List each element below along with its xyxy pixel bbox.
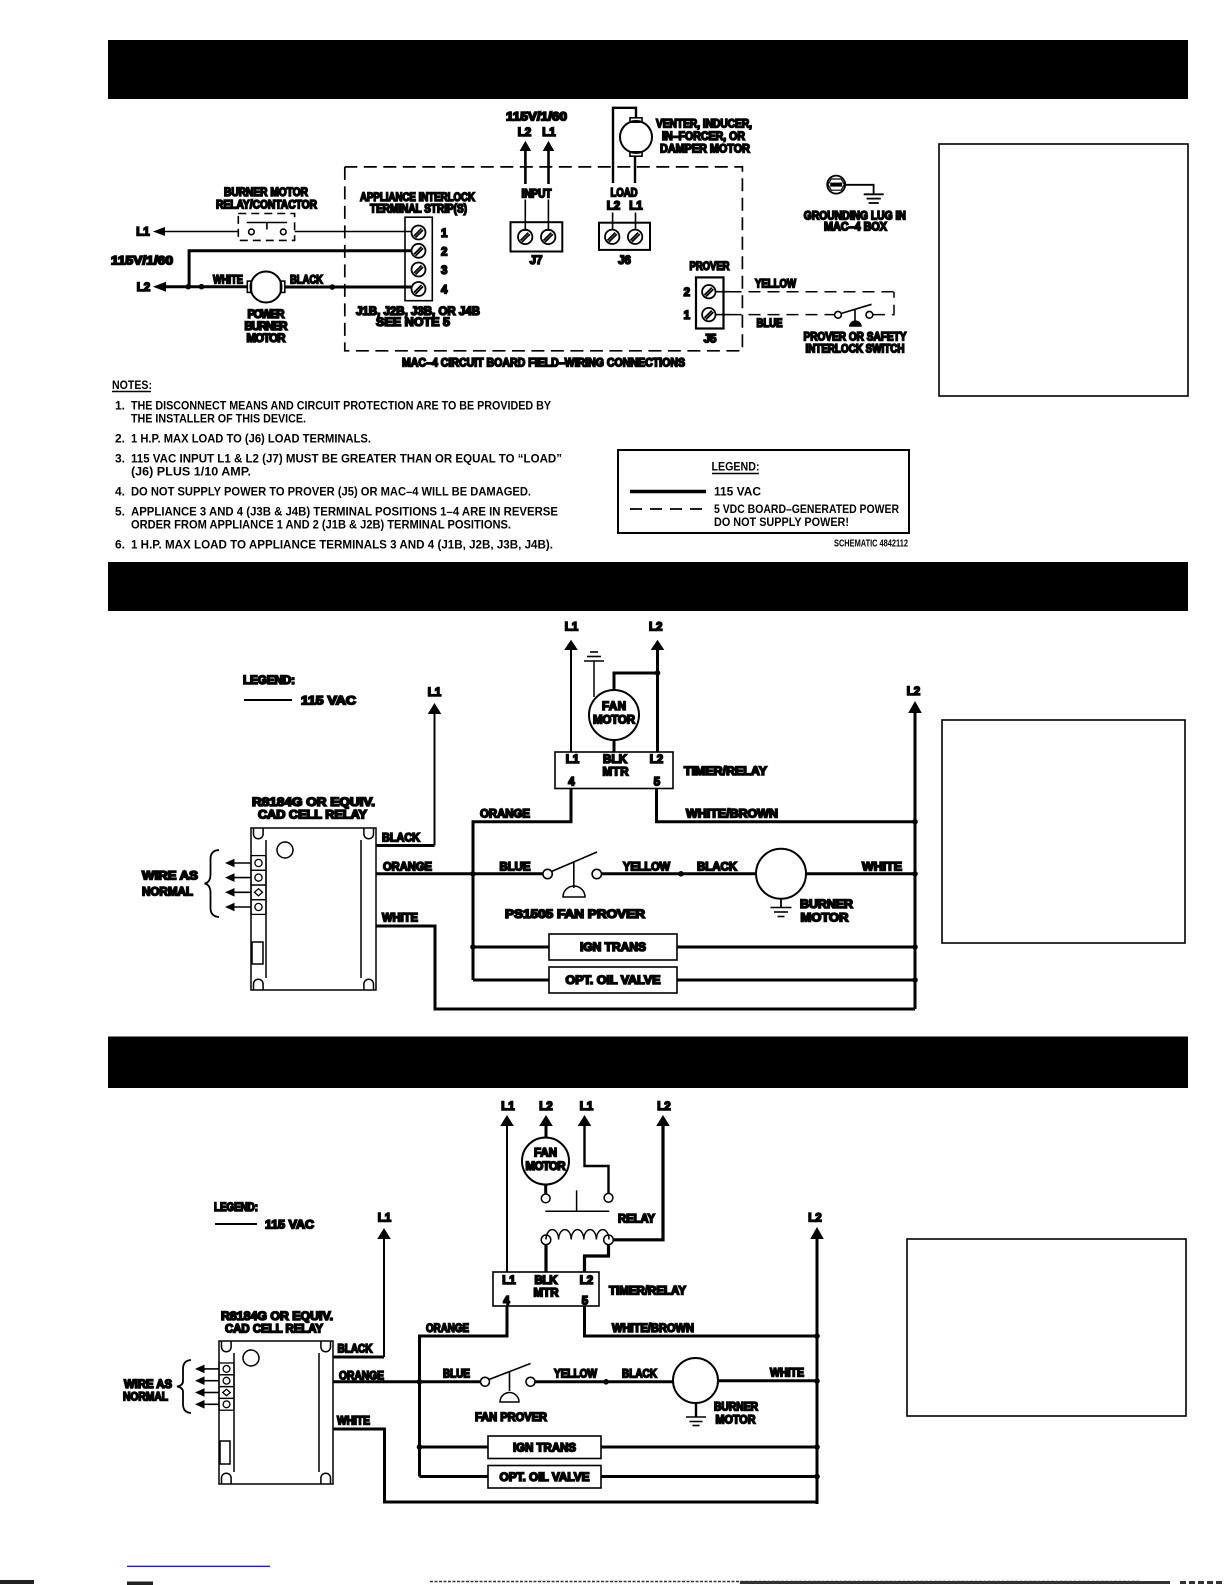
D3 timer/relay box — [493, 1272, 599, 1306]
svg-text:IGN TRANS: IGN TRANS — [580, 942, 646, 954]
D2 label BLACK (burner) — [697, 862, 738, 874]
svg-text:L2: L2 — [580, 1275, 593, 1287]
svg-text:2: 2 — [441, 246, 447, 258]
svg-text:115 VAC: 115 VAC — [714, 485, 761, 499]
grounding lug wire — [845, 185, 873, 195]
svg-text:L1: L1 — [542, 127, 556, 139]
svg-text:5: 5 — [582, 1296, 589, 1308]
D3 label WHITE/BROWN — [612, 1323, 694, 1335]
svg-text:BLUE: BLUE — [500, 862, 531, 874]
D3 junction dots on L2 bus — [814, 1333, 820, 1479]
D3 IGN TRANS box + wires — [420, 1436, 818, 1459]
J7 screw L2 — [518, 230, 532, 244]
terminal pin numbers 1-4 — [441, 228, 448, 297]
svg-text:MOTOR: MOTOR — [716, 1415, 757, 1427]
svg-text:6.: 6. — [115, 538, 125, 552]
svg-text:115 VAC: 115 VAC — [301, 696, 356, 708]
D3 fan motor label — [526, 1148, 567, 1174]
D3 L2 coil arrow and wire (thick) — [613, 1115, 670, 1240]
svg-text:ORANGE: ORANGE — [383, 862, 432, 874]
D2 IGN TRANS box + wires — [473, 934, 915, 960]
svg-text:L1: L1 — [566, 754, 580, 766]
svg-text:YELLOW: YELLOW — [554, 1369, 597, 1381]
svg-text:DO NOT SUPPLY POWER!: DO NOT SUPPLY POWER! — [714, 515, 849, 529]
D3 label ORANGE + wire (thick) — [333, 1371, 481, 1383]
wire relay to terminal 1 — [295, 231, 412, 233]
svg-text:1: 1 — [684, 310, 691, 322]
bottom page artifacts: cut-off rule right — [430, 1582, 1225, 1583]
svg-text:TERMINAL STRIP(S): TERMINAL STRIP(S) — [370, 204, 467, 216]
D2 label BLUE — [500, 862, 531, 874]
terminal screw 3 — [412, 263, 426, 277]
MAC-4 board dashed outline — [345, 167, 743, 351]
wire L1 arrow — [153, 227, 238, 236]
prover wire 2 (yellow, dashed) — [716, 291, 895, 293]
svg-text:5 VDC BOARD–GENERATED POWER: 5 VDC BOARD–GENERATED POWER — [714, 502, 899, 516]
legend box — [618, 450, 909, 533]
svg-text:TIMER/RELAY: TIMER/RELAY — [684, 766, 767, 778]
svg-text:SEE NOTE 5: SEE NOTE 5 — [376, 317, 451, 329]
svg-text:J5: J5 — [704, 333, 717, 345]
D2 node L1 (left riser) — [565, 622, 579, 634]
junction dot on L2 (2nd) — [199, 284, 205, 290]
svg-text:R8184G OR EQUIV.: R8184G OR EQUIV. — [221, 1311, 333, 1323]
svg-text:THE INSTALLER OF THIS DEVICE.: THE INSTALLER OF THIS DEVICE. — [131, 412, 306, 426]
D2 node L2 (right of fan motor) — [649, 622, 662, 634]
D2 label BURNER MOTOR — [800, 899, 854, 925]
svg-text:IGN TRANS: IGN TRANS — [513, 1443, 576, 1455]
D3 node L2 (right bus) — [808, 1213, 821, 1225]
D2 node L1 (relay riser) — [428, 687, 442, 699]
labels L2 L1 (load) — [607, 201, 644, 213]
svg-text:POWER: POWER — [248, 309, 286, 321]
svg-text:APPLIANCE 3 AND 4 (J3B & J4B): APPLIANCE 3 AND 4 (J3B & J4B) TERMINAL P… — [131, 505, 558, 519]
motor terminal tabs — [247, 281, 284, 292]
D3 junction dot yellow/black — [603, 1379, 609, 1385]
D2 label YELLOW + wire (thick) — [602, 862, 757, 874]
svg-text:3: 3 — [441, 265, 447, 277]
D2 brace — [205, 850, 220, 917]
D2 junction dot at L2/fan motor — [655, 670, 661, 676]
legend heading — [712, 460, 760, 474]
svg-text:115 VAC INPUT L1 & L2 (J7) MUS: 115 VAC INPUT L1 & L2 (J7) MUST BE GREAT… — [131, 452, 562, 466]
D3 brace — [177, 1360, 191, 1413]
terminal screw 1 — [412, 226, 426, 240]
svg-text:4: 4 — [568, 777, 575, 789]
D3 fan motor circle — [522, 1138, 569, 1185]
relay contact symbol inside — [247, 223, 287, 235]
label PROVER — [690, 261, 731, 273]
svg-text:LOAD: LOAD — [611, 187, 638, 199]
svg-text:CAD CELL RELAY: CAD CELL RELAY — [225, 1324, 323, 1336]
power burner motor circle — [251, 272, 282, 303]
empty image frame box 2 — [942, 720, 1185, 943]
D2 label WHITE + wire to bottom bus (thick) — [376, 913, 915, 1010]
D3 label BURNER MOTOR — [714, 1402, 759, 1427]
label INPUT — [522, 189, 552, 201]
connector J5 box — [696, 277, 724, 328]
D3 label TIMER/RELAY — [609, 1286, 686, 1298]
svg-text:3.: 3. — [115, 452, 125, 466]
input L1 arrow (up, thick) — [543, 141, 555, 231]
D3 label BLUE — [443, 1369, 470, 1381]
svg-text:ORANGE: ORANGE — [480, 809, 530, 821]
svg-text:4: 4 — [441, 285, 448, 297]
D3 junction dot orange bus — [417, 1379, 423, 1385]
svg-text:L2: L2 — [907, 686, 920, 698]
label WHITE — [213, 275, 243, 287]
legend 115 VAC sample line — [630, 485, 761, 499]
wire motor to terminal 4 (thick) — [285, 286, 412, 289]
D3 label RELAY — [618, 1214, 655, 1226]
svg-text:4.: 4. — [115, 485, 125, 499]
label 115V/1/60 — [111, 256, 173, 268]
svg-text:MAC–4 BOX: MAC–4 BOX — [824, 222, 887, 234]
svg-text:J7: J7 — [530, 255, 543, 267]
svg-text:IN–FORCER, OR: IN–FORCER, OR — [662, 131, 746, 143]
svg-text:L2: L2 — [657, 1101, 670, 1113]
svg-text:MTR: MTR — [534, 1288, 560, 1300]
svg-text:BURNER MOTOR: BURNER MOTOR — [224, 187, 309, 199]
D2 burner motor circle — [756, 849, 806, 899]
svg-text:BLUE: BLUE — [757, 318, 783, 330]
D2 label WIRE AS NORMAL — [142, 871, 198, 899]
svg-text:WHITE: WHITE — [213, 275, 243, 287]
D2 relay terminal strip — [251, 856, 266, 915]
D3 junction dot ign trans left — [417, 1444, 423, 1450]
note 4 — [115, 485, 531, 499]
empty image frame box 3 — [907, 1239, 1186, 1416]
svg-text:BLK: BLK — [535, 1275, 559, 1287]
venter motor loop wire (thick) — [613, 108, 636, 183]
D2 ground symbol above fan motor — [584, 652, 604, 697]
svg-text:WHITE/BROWN: WHITE/BROWN — [612, 1323, 694, 1335]
D3 coil right wire to timer L2 (thick) — [585, 1245, 609, 1272]
D2 legend heading — [243, 675, 295, 687]
D3 L1 timer arrow and riser — [500, 1115, 514, 1272]
svg-text:L1: L1 — [501, 1101, 515, 1113]
svg-text:4: 4 — [503, 1296, 510, 1308]
legend 5 VDC dashed sample line — [630, 502, 899, 529]
label BURNER MOTOR — [216, 187, 318, 212]
svg-text:L2: L2 — [649, 622, 662, 634]
D2 fan motor label — [593, 701, 636, 727]
J5 screw 1 — [702, 308, 715, 321]
D3 relay contact circle left — [541, 1194, 550, 1203]
svg-text:1: 1 — [441, 228, 448, 240]
svg-text:L2: L2 — [137, 282, 150, 294]
note 3 — [115, 452, 562, 479]
svg-text:MOTOR: MOTOR — [593, 715, 636, 727]
grounding lug symbol — [827, 176, 845, 194]
svg-text:APPLIANCE INTERLOCK: APPLIANCE INTERLOCK — [360, 192, 476, 204]
D2 label BLACK + wire to L1 riser (thick) — [376, 833, 435, 846]
venter motor tabs — [630, 118, 642, 156]
D3 wire-as-normal arrows — [195, 1365, 219, 1409]
svg-text:FAN PROVER: FAN PROVER — [475, 1412, 548, 1424]
svg-text:INPUT: INPUT — [522, 189, 552, 201]
svg-text:OPT. OIL VALVE: OPT. OIL VALVE — [566, 975, 661, 987]
svg-text:L1: L1 — [629, 201, 643, 213]
bottom page artifacts: cut-off text left — [0, 1580, 153, 1585]
svg-text:BLACK: BLACK — [338, 1344, 374, 1356]
svg-text:2: 2 — [684, 287, 690, 299]
svg-text:WHITE/BROWN: WHITE/BROWN — [686, 809, 778, 821]
svg-text:1.: 1. — [115, 399, 125, 413]
svg-text:R8184G OR EQUIV.: R8184G OR EQUIV. — [252, 797, 375, 809]
D2 label ORANGE + wire (thick) — [376, 862, 543, 874]
svg-text:PROVER OR SAFETY: PROVER OR SAFETY — [804, 332, 907, 344]
empty image frame box 1 — [939, 144, 1188, 396]
svg-text:L1: L1 — [565, 622, 579, 634]
D2 fan motor to timer wire (thick) — [613, 740, 616, 752]
D3 label BLACK + wire to L1 riser (thick) — [333, 1344, 384, 1358]
J7 screw L1 — [541, 230, 555, 244]
svg-text:YELLOW: YELLOW — [623, 862, 670, 874]
D2 OPT. OIL VALVE box + wires — [473, 967, 915, 993]
D3 label BLACK (burner) — [622, 1369, 658, 1381]
label SCHEMATIC 4842112 — [834, 539, 908, 550]
svg-text:NORMAL: NORMAL — [142, 887, 193, 899]
D3 OPT. OIL VALVE box + wires — [420, 1466, 818, 1489]
terminal screw 2 — [412, 244, 426, 258]
D2 burner motor ground — [771, 899, 792, 917]
D3 L2 bus arrow and vertical wire (thick) — [810, 1227, 824, 1504]
D3 label WHITE + wire to bottom bus (thick) — [333, 1416, 817, 1503]
svg-text:WIRE AS: WIRE AS — [142, 871, 198, 883]
note 6 — [115, 538, 553, 552]
D3 L2 fan arrow and riser (thick) — [539, 1115, 553, 1138]
title banner 2 (redacted black bar) — [108, 562, 1188, 611]
svg-text:WHITE: WHITE — [770, 1368, 804, 1380]
D2 junction dot orange bus — [470, 871, 476, 877]
D3 L1 arrow and riser wire — [377, 1228, 391, 1357]
svg-text:BLACK: BLACK — [622, 1369, 658, 1381]
prover or safety interlock switch symbol — [835, 304, 873, 327]
load L2 wire stems — [613, 213, 636, 231]
J5 pin labels 2 and 1 — [684, 287, 691, 322]
junction dot right of motor — [330, 284, 336, 290]
svg-text:WHITE: WHITE — [337, 1416, 370, 1428]
svg-text:L1: L1 — [136, 227, 150, 239]
label LOAD — [611, 187, 638, 199]
D3 label YELLOW + wire (thick) — [535, 1369, 673, 1382]
label BLUE — [757, 318, 783, 330]
D2 fan motor circle — [589, 690, 639, 740]
svg-text:5.: 5. — [115, 505, 125, 519]
D3 cad cell relay body — [219, 1341, 333, 1484]
D3 node L2 (coil riser, top) — [657, 1101, 670, 1113]
D2 label R8184G OR EQUIV. CAD CELL RELAY — [252, 797, 375, 822]
D2 label ORANGE (top) — [480, 809, 530, 821]
svg-text:PROVER: PROVER — [690, 261, 731, 273]
D3 burner motor ground — [686, 1403, 706, 1426]
svg-text:115V/1/60: 115V/1/60 — [506, 112, 567, 124]
note 2 — [115, 432, 371, 446]
D3 relay contact actuator bars — [545, 1190, 609, 1211]
title banner 1 (redacted black bar) — [108, 40, 1188, 99]
D2 junction dot yellow/black — [678, 871, 684, 877]
label 115V/1/60 (input feed) — [506, 112, 567, 124]
venter motor circle — [620, 121, 652, 153]
svg-text:OPT. OIL VALVE: OPT. OIL VALVE — [500, 1472, 590, 1484]
labels L2 L1 (input) — [518, 127, 557, 139]
svg-text:L2: L2 — [650, 754, 663, 766]
label J1B, J2B, J3B, OR J4B / SEE NOTE 5 — [356, 306, 480, 329]
svg-text:MOTOR: MOTOR — [526, 1161, 567, 1173]
svg-text:BLACK: BLACK — [290, 275, 324, 287]
svg-text:MTR: MTR — [603, 767, 630, 779]
svg-text:CAD CELL RELAY: CAD CELL RELAY — [258, 810, 367, 822]
svg-text:INTERLOCK SWITCH: INTERLOCK SWITCH — [806, 344, 905, 356]
svg-text:SCHEMATIC 4842112: SCHEMATIC 4842112 — [834, 539, 908, 550]
svg-text:BLACK: BLACK — [697, 862, 738, 874]
D3 relay terminal strip — [219, 1363, 234, 1410]
label GROUNDING LUG IN MAC-4 BOX — [804, 211, 906, 234]
D3 label WIRE AS NORMAL — [123, 1379, 172, 1404]
svg-text:WHITE: WHITE — [862, 862, 902, 874]
D2 wire-as-normal arrows — [225, 859, 251, 912]
J5 screw 2 — [702, 285, 715, 298]
node L2 label (left feed) — [137, 282, 150, 294]
svg-text:PS1505 FAN PROVER: PS1505 FAN PROVER — [505, 909, 646, 921]
D3 fan motor to contact wire (thick) — [544, 1185, 547, 1195]
D2 wire timer 4 to orange bus (thick) — [473, 789, 571, 981]
svg-text:BLK: BLK — [603, 754, 628, 766]
svg-text:LEGEND:: LEGEND: — [243, 675, 295, 687]
D3 legend sample line + 115 VAC — [215, 1220, 314, 1232]
label PROVER OR SAFETY INTERLOCK SWITCH — [804, 332, 907, 356]
label J5 — [704, 333, 717, 345]
D2 timer terminal labels — [566, 754, 663, 789]
svg-text:YELLOW: YELLOW — [755, 279, 796, 291]
D2 relay cad cell hole — [277, 842, 293, 858]
D3 L1 contact arrow and wire — [578, 1115, 609, 1193]
dashed wire right bracket — [873, 292, 894, 315]
svg-text:LEGEND:: LEGEND: — [214, 1202, 258, 1214]
input L2 arrow (up, thick) — [520, 141, 532, 231]
svg-text:1 H.P. MAX LOAD TO (J6) LOAD T: 1 H.P. MAX LOAD TO (J6) LOAD TERMINALS. — [131, 432, 371, 446]
svg-text:NOTES:: NOTES: — [112, 378, 152, 392]
D3 node L2 (fan motor, top) — [539, 1101, 552, 1113]
svg-text:BURNER: BURNER — [714, 1402, 759, 1414]
note 1 — [115, 399, 551, 426]
node L1 label (left feed) — [136, 227, 150, 239]
D2 label TIMER/RELAY — [684, 766, 767, 778]
J6 screw L2 — [605, 230, 619, 244]
D2 fan motor wire to L2 riser (thick) — [614, 673, 658, 691]
D2 legend sample line + 115 VAC — [244, 696, 356, 708]
svg-text:5: 5 — [654, 777, 661, 789]
svg-text:L1: L1 — [378, 1213, 392, 1225]
D2 fan prover switch — [543, 852, 602, 897]
svg-text:ORANGE: ORANGE — [426, 1323, 469, 1335]
label POWER BURNER MOTOR — [245, 309, 289, 345]
terminal screw 4 — [412, 282, 426, 296]
svg-text:DAMPER MOTOR: DAMPER MOTOR — [660, 144, 751, 156]
svg-text:L2: L2 — [808, 1213, 821, 1225]
D3 wire timer 4 to orange bus (thick) — [420, 1306, 508, 1477]
D2 label WHITE/BROWN — [686, 809, 778, 821]
D3 node L1 (timer riser, top) — [501, 1101, 515, 1113]
D2 L2 bus arrow and vertical wire (thick) — [908, 701, 922, 1009]
appliance interlock terminal strip box — [405, 217, 432, 301]
label MAC-4 CIRCUIT BOARD FIELD-WIRING CONNECTIONS — [402, 358, 685, 370]
label YELLOW — [755, 279, 796, 291]
svg-text:WIRE AS: WIRE AS — [124, 1379, 172, 1391]
D3 label R8184G OR EQUIV. CAD CELL RELAY — [221, 1311, 333, 1336]
svg-text:L1: L1 — [428, 687, 442, 699]
svg-text:1 H.P. MAX LOAD TO APPLIANCE T: 1 H.P. MAX LOAD TO APPLIANCE TERMINALS 3… — [131, 538, 553, 552]
D3 node L1 (relay riser) — [378, 1213, 392, 1225]
svg-text:NORMAL: NORMAL — [123, 1392, 168, 1404]
label J6 — [618, 255, 631, 267]
svg-text:BURNER: BURNER — [800, 899, 854, 911]
D3 node L1 (contact riser, top) — [580, 1101, 594, 1113]
D3 fan prover switch — [481, 1364, 536, 1403]
relay/contactor box (dashed) — [238, 214, 294, 241]
D3 label WHITE (right) + wire (thick) — [718, 1368, 817, 1381]
svg-text:L1: L1 — [580, 1101, 594, 1113]
D2 label PS1505 FAN PROVER — [505, 909, 646, 921]
svg-text:VENTER, INDUCER,: VENTER, INDUCER, — [656, 119, 752, 131]
D3 wire timer 5 to L2 bus (thick) — [585, 1306, 818, 1336]
svg-text:MAC–4 CIRCUIT BOARD FIELD–WIRI: MAC–4 CIRCUIT BOARD FIELD–WIRING CONNECT… — [402, 358, 685, 370]
D2 label WHITE (right) + wire (thick) — [806, 862, 915, 874]
connector J7 box — [511, 222, 563, 251]
svg-text:RELAY: RELAY — [618, 1214, 655, 1226]
D3 label FAN PROVER — [475, 1412, 548, 1424]
D3 relay coil — [541, 1230, 613, 1245]
svg-text:J6: J6 — [618, 255, 631, 267]
svg-text:115 VAC: 115 VAC — [265, 1220, 314, 1232]
D2 junction dot ign trans left — [470, 944, 476, 950]
svg-text:BLACK: BLACK — [382, 833, 421, 845]
svg-text:THE DISCONNECT MEANS AND CIRCU: THE DISCONNECT MEANS AND CIRCUIT PROTECT… — [131, 399, 551, 413]
label J7 — [530, 255, 543, 267]
D2 L2 arrow and riser wire (thick) — [651, 640, 665, 752]
wire L2 to terminal 2 (up and right, thick) — [189, 251, 411, 287]
svg-text:ORDER FROM APPLIANCE 1 AND 2 (: ORDER FROM APPLIANCE 1 AND 2 (J1B & J2B)… — [131, 518, 511, 532]
svg-text:115V/1/60: 115V/1/60 — [111, 256, 173, 268]
D3 burner motor circle — [673, 1358, 718, 1403]
connector J6 box — [599, 223, 650, 250]
svg-text:L2: L2 — [518, 127, 531, 139]
D3 label ORANGE (top) — [426, 1323, 469, 1335]
D2 node L2 (right bus) — [907, 686, 920, 698]
svg-text:WHITE: WHITE — [382, 913, 418, 925]
bottom page artifacts: blue rule — [127, 1565, 270, 1567]
label APPLIANCE INTERLOCK TERMINAL STRIP(S) — [360, 192, 476, 216]
svg-text:FAN: FAN — [602, 701, 626, 713]
D3 timer terminal labels — [502, 1275, 593, 1308]
D2 wire timer 5 to L2 bus (thick) — [657, 789, 916, 822]
svg-text:2.: 2. — [115, 432, 125, 446]
wire L2 arrow (thick) — [153, 282, 247, 292]
svg-text:MOTOR: MOTOR — [801, 913, 850, 925]
junction dot on L2 — [185, 284, 191, 290]
svg-text:BLUE: BLUE — [443, 1369, 470, 1381]
svg-text:(J6) PLUS 1/10 AMP.: (J6) PLUS 1/10 AMP. — [131, 465, 251, 479]
svg-text:LEGEND:: LEGEND: — [712, 460, 760, 474]
prover wire 1 (blue, dashed) — [716, 314, 835, 316]
note 5 — [115, 505, 558, 532]
D2 cad cell relay body — [251, 828, 376, 990]
D2 timer/relay box — [555, 752, 673, 789]
D3 legend heading — [214, 1202, 258, 1214]
svg-text:L2: L2 — [607, 201, 620, 213]
svg-text:MOTOR: MOTOR — [247, 333, 287, 345]
